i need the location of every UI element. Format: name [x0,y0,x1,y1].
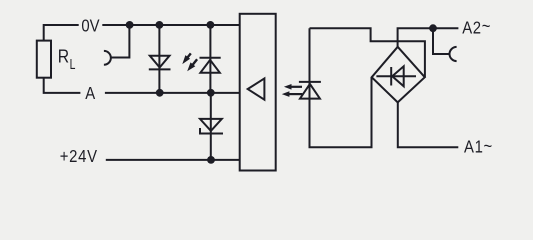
wire A line to amplifier box [105,92,240,94]
junction dot 0V/V1 [156,21,164,29]
svg-text:A: A [85,84,95,103]
svg-text:A2~: A2~ [462,17,491,38]
LED V2 light arrows [182,53,197,71]
wire bridge bottom corner to A1 [398,102,459,147]
wire photodiode V4 branch + to bridge left corner [310,28,372,147]
junction dot 0V/V2 [207,21,215,29]
svg-text:L: L [70,56,76,72]
junction dot A/V1 [156,89,164,97]
wire plug stub from A2 [433,28,450,54]
plug contact (0V) [104,51,111,65]
svg-text:R: R [58,45,69,67]
wire bridge top corner to A2 bus [398,28,459,47]
bridge internal diode [376,66,416,86]
wire diode V1 branch [158,25,160,93]
svg-text:0V: 0V [81,16,99,35]
optocoupler light arrow lower [282,91,303,97]
photodiode V4 [299,82,321,99]
wire +24V line to amplifier box [106,159,240,161]
junction dot A2 [429,24,437,32]
wire LED V2 branch [209,25,211,93]
resistor RL [37,41,51,78]
wire V4 top to bridge right corner [310,28,425,77]
bridge rectifier diamond [372,47,425,103]
wire zener V3 branch [210,93,212,160]
amplifier box U1 [240,14,276,171]
wire resistor bottom lead to A terminal [44,78,81,93]
plug contact (A2) [450,47,457,61]
label RL [58,45,76,72]
optocoupler light arrow upper [284,84,302,90]
LED V2 [200,58,221,73]
wire 0V bus to amplifier box [102,24,239,26]
junction dot 0V/plug [126,21,134,29]
diode V1 [149,56,171,70]
amplifier triangle [248,78,265,99]
junction dot +24V/V3 [207,156,215,164]
junction dot A/V2 [207,89,215,97]
zener diode V3 [200,119,223,134]
wire 0V bus left + resistor top lead [44,25,79,41]
wire plug stub from 0V bus [111,25,129,58]
svg-text:A1~: A1~ [464,137,493,157]
svg-text:+24V: +24V [60,147,98,166]
